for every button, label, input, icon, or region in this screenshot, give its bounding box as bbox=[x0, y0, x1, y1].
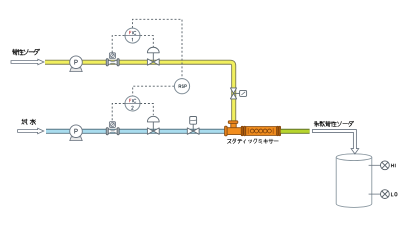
signal: FE2 to FIC2 bbox=[112, 104, 125, 121]
signal: RSP to FIC2 bbox=[133, 86, 175, 96]
pump P2 (water) bbox=[70, 125, 83, 141]
mixer tee fitting (orange) bbox=[225, 121, 244, 136]
mixer outlet flange pair bbox=[277, 126, 281, 136]
wire: yellow caustic pipe (horizontal then down) bbox=[45, 62, 234, 121]
label: caustic soda inlet (top left) bbox=[12, 49, 39, 55]
controller FIC1 bbox=[125, 28, 140, 43]
control valve CV1 bbox=[147, 47, 159, 65]
outlet arrow into tank bbox=[312, 130, 358, 154]
level alarm LO bbox=[369, 190, 397, 199]
inlet arrow (caustic soda) bbox=[11, 59, 44, 65]
control valve CV2 bbox=[147, 116, 159, 134]
mixer inlet flange pair bbox=[241, 126, 245, 136]
signal: FE1 to FIC1 bbox=[112, 36, 125, 53]
flow meter FE1 bbox=[106, 53, 119, 66]
static mixer body with elements bbox=[246, 127, 277, 136]
pump P1 (caustic) bbox=[70, 56, 83, 72]
controller FIC2 bbox=[125, 96, 140, 111]
wire: blue pure-water pipe bbox=[46, 129, 225, 134]
wire: green product pipe bbox=[281, 129, 310, 134]
hand valve HV2 (square actuator) bbox=[187, 117, 199, 135]
level alarm HI bbox=[369, 161, 396, 170]
signal: FIC1 to RSP (top loop) bbox=[133, 19, 183, 78]
label: static mixer bbox=[227, 139, 278, 143]
signal: FIC1 to valve CV1 bbox=[140, 36, 153, 48]
flow meter FE2 bbox=[106, 122, 119, 135]
inlet arrow (pure water) bbox=[18, 128, 44, 134]
label: diluted caustic soda bbox=[314, 121, 354, 126]
valve on vertical caustic line bbox=[230, 88, 246, 99]
label: pure water inlet bbox=[22, 119, 36, 124]
signal: FIC2 to valve CV2 bbox=[140, 104, 153, 116]
remote setpoint RSP bbox=[174, 79, 189, 94]
storage tank bbox=[336, 154, 372, 208]
